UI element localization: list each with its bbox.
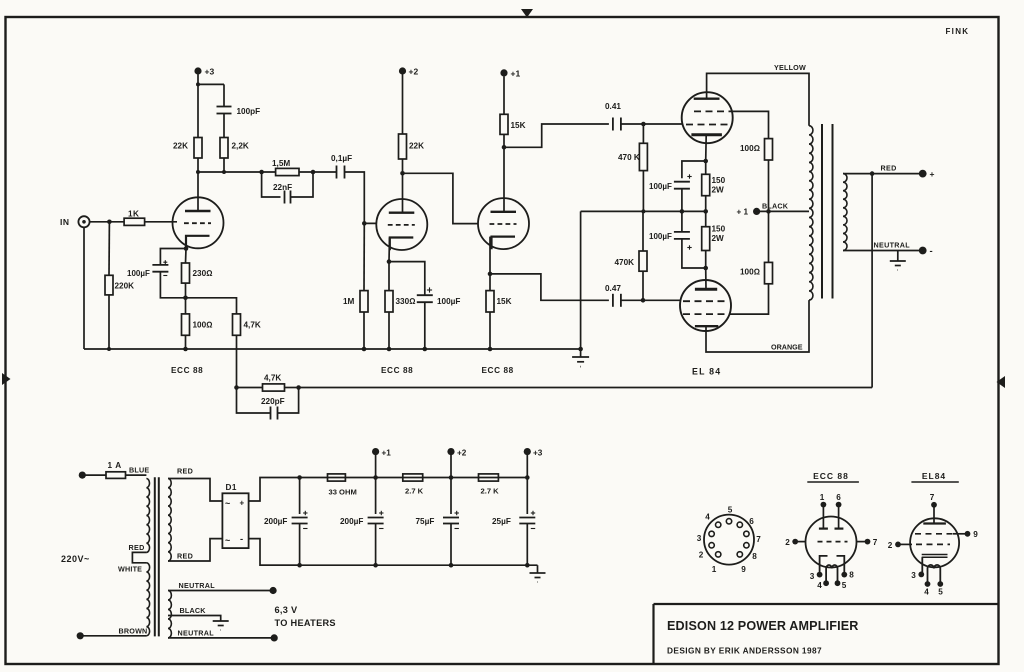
wire V1 plate to 22K [197,158,199,211]
svg-text:15K: 15K [511,121,526,130]
wire HT bottom to rectifier [168,539,222,561]
svg-text:100Ω: 100Ω [740,268,760,277]
node below +3 [196,82,200,86]
svg-text:1: 1 [712,565,717,574]
svg-text:ECC 88: ECC 88 [171,366,203,375]
svg-text:200µF: 200µF [264,517,287,526]
node V2 anode [400,171,405,176]
feedback line to output [299,387,873,389]
svg-text:2.7 K: 2.7 K [405,487,424,496]
wire V5 plate to transformer bottom [706,300,809,352]
svg-text:4,7K: 4,7K [244,321,261,330]
svg-text:0.41: 0.41 [605,102,621,111]
capacitor 100uF (upper cathode bypass) [682,161,706,178]
svg-text:EL84: EL84 [922,471,946,481]
svg-text:2W: 2W [712,234,725,243]
B+ rail [300,477,528,479]
svg-text:3: 3 [810,572,815,581]
resistor 100R (lower screen) [765,262,773,283]
svg-text:FINK: FINK [946,27,970,36]
wire fuse to primary [126,474,147,476]
node grid1 junction [107,220,112,225]
node V5 cathode junction [703,266,708,271]
capacitor 22nF (parallel to 1.5M) [262,172,281,197]
mains terminal lower [77,632,84,639]
node B feedback [296,385,301,390]
svg-text:ECC 88: ECC 88 [813,471,849,481]
svg-text:RED: RED [129,543,145,552]
svg-text:8: 8 [752,552,757,561]
resistor 470K (lower grid leak) [639,251,647,271]
svg-text:100Ω: 100Ω [740,144,760,153]
EL84 basing circle [910,518,959,567]
wire V3 cathode to coupling cap 0.47 [490,274,609,300]
mains primary winding upper [146,479,149,553]
svg-text:220pF: 220pF [261,397,285,406]
heater terminal bottom [271,634,278,641]
svg-text:470K: 470K [615,258,635,267]
RED tap jog [132,552,146,562]
wire rectifier - to ground rail [249,539,300,566]
svg-text:230Ω: 230Ω [193,269,213,278]
capacitor 0.47 (lower coupling) [612,294,614,307]
ECC88 heater [826,565,837,583]
svg-text:2: 2 [888,541,893,550]
heater winding [168,591,171,638]
ECC88 pin3 cathode [820,556,828,575]
resistor 220K (input load) [105,275,113,295]
svg-text:25µF: 25µF [492,517,511,526]
node V4 cathode [703,159,708,164]
node V3 cathode [488,272,493,277]
svg-text:100µF: 100µF [127,269,150,278]
resistor 100R (V1 cathode to gnd) [182,314,190,335]
svg-text:+ 1: + 1 [737,208,749,217]
svg-text:100µF: 100µF [649,182,672,191]
svg-text:4: 4 [924,588,929,597]
svg-text:22K: 22K [409,142,424,151]
wire secondary bottom NEUTRAL [843,250,923,252]
wire 15K to +1 [503,76,505,114]
node +1 center tap feed [753,208,760,215]
wire V5 screen to 100R [731,284,769,314]
node +2 filter [449,475,454,480]
svg-text:D1: D1 [226,483,237,492]
node filter 1 [297,475,302,480]
svg-text:2: 2 [699,551,704,560]
node +1 filter [373,475,378,480]
node V3 anode [502,145,507,150]
svg-text:1: 1 [820,493,825,502]
capacitor 0.1uF (coupling) [336,166,338,179]
svg-text:YELLOW: YELLOW [774,63,806,72]
HT secondary winding [168,479,171,562]
resistor 150R 2W (lower cathode) [702,227,710,251]
svg-text:8: 8 [849,571,854,580]
node +2 supply [399,67,406,74]
output transformer primary winding [809,126,813,300]
top registration mark [521,9,533,18]
svg-text:150: 150 [712,225,726,234]
wire V2 anode to V3 grid [403,173,479,223]
svg-text:BROWN: BROWN [119,627,148,636]
svg-text:WHITE: WHITE [118,565,142,574]
ECC88 pin2 grid [795,541,806,543]
svg-text:NEUTRAL: NEUTRAL [179,581,216,590]
node after 1.5M [311,170,316,175]
socket pin view B9A [704,515,754,565]
feedback wire from output [871,174,873,388]
heater top lead NEUTRAL [168,590,273,592]
svg-text:2: 2 [785,538,790,547]
svg-text:BLACK: BLACK [762,202,789,211]
svg-text:7: 7 [873,538,878,547]
svg-text:+1: +1 [511,69,521,79]
svg-text:220K: 220K [115,282,135,291]
wire 1K to V1 grid [145,221,177,223]
svg-text:BLACK: BLACK [180,606,207,615]
output transformer secondary winding [843,174,847,251]
svg-text:ECC 88: ECC 88 [381,366,413,375]
svg-text:+3: +3 [533,449,543,458]
heater terminal top [270,587,277,594]
resistor 2.7K second [479,474,499,481]
wire V4 plate to transformer top [707,73,809,125]
svg-text:RED: RED [177,552,193,561]
EL84 cathode pin3 [922,554,948,556]
resistor 33 OHM [328,474,346,481]
svg-text:NEUTRAL: NEUTRAL [874,241,911,250]
capacitor 25uF [526,478,528,515]
wire V2 plate up [402,173,404,212]
svg-text:0,1µF: 0,1µF [331,154,352,163]
EL84 grid2 dashes pin9 [915,533,953,535]
svg-text:9: 9 [741,565,746,574]
triode V3 ECC88c [478,198,529,249]
wire 0.1uF to V2 grid [345,172,377,223]
wire primary bottom to terminal [80,635,146,637]
node +1 supply top [500,69,507,76]
node upper EL84 grid [641,122,646,127]
mains primary winding lower [146,563,149,636]
heater mid tap BLACK to ground [168,616,221,622]
svg-text:5: 5 [728,506,733,515]
svg-text:1 A: 1 A [108,461,122,470]
svg-text:4,7K: 4,7K [264,374,281,383]
resistor 100R (upper screen) [765,139,773,160]
resistor 4.7K feedback [263,384,285,391]
svg-text:22K: 22K [173,142,188,151]
resistor 1.5M (coupling) [276,168,299,175]
EL84 pin7 anode [931,502,937,508]
wire V2 cathode down [388,238,391,262]
svg-text:1M: 1M [343,297,355,306]
capacitor 100uF (lower cathode bypass) [681,211,683,232]
resistor 330R (V2 cathode) [385,291,393,312]
svg-text:7: 7 [756,535,761,544]
wire rectifier + to filter [249,478,300,502]
capacitor 100uF (V2 cathode bypass) [389,262,425,295]
node +3 filter [525,475,530,480]
output transformer core [821,124,823,299]
title block frame [654,603,1000,605]
svg-text:ORANGE: ORANGE [771,343,803,352]
ECC88 pin1 anode [821,502,827,508]
svg-text:NEUTRAL: NEUTRAL [178,629,215,638]
mains transformer core [154,477,156,636]
svg-text:2W: 2W [712,186,725,195]
svg-text:1,5M: 1,5M [272,159,290,168]
pentode V4 EL84 upper [682,92,733,143]
mains terminal upper [79,472,86,479]
resistor 2.7K first [403,474,423,481]
resistor 2.2K [220,138,228,159]
input jack J1 [78,216,89,227]
svg-text:330Ω: 330Ω [396,297,416,306]
resistor 1K (grid stopper) [124,218,145,225]
svg-text:-: - [930,246,933,257]
EL84 grid1 dashes pin2 [916,543,950,545]
svg-text:6: 6 [749,517,754,526]
svg-text:33 OHM: 33 OHM [329,488,357,497]
node lower EL84 grid [641,298,646,303]
node V1 anode junction [196,170,200,174]
capacitor 200uF second [375,478,377,515]
svg-text:IN: IN [60,217,70,227]
ECC88 pin8 cathode [837,556,845,575]
wire cap to lower EL84 grid [621,299,680,301]
resistor 22K (V1 anode) [194,138,202,159]
ground bus [84,348,581,350]
svg-text:-: - [240,534,243,545]
output terminal + [919,170,927,178]
svg-text:EDISON 12 POWER AMPLIFIER: EDISON 12 POWER AMPLIFIER [667,619,859,633]
svg-text:+2: +2 [457,449,467,458]
svg-text:100pF: 100pF [237,107,261,116]
svg-text:+: + [930,169,935,179]
svg-text:BLUE: BLUE [129,466,149,475]
svg-text:15K: 15K [497,297,512,306]
EL84 heater [928,565,941,584]
svg-text:100µF: 100µF [649,232,672,241]
ground symbol main [580,349,582,357]
node V2 grid [362,221,367,226]
capacitor 200uF first [299,478,301,515]
wire 22K to +2 [402,75,404,135]
resistor 15K (V3 cathode) [486,291,494,312]
triode V2 ECC88b [376,199,427,250]
wire black center tap [757,210,809,212]
svg-text:RED: RED [881,164,897,173]
svg-text:3: 3 [911,571,916,580]
output terminal - [919,247,927,255]
svg-text:0.47: 0.47 [605,284,621,293]
ground on neutral [897,251,899,262]
svg-text:9: 9 [973,530,978,539]
svg-text:ECC 88: ECC 88 [482,366,514,375]
wire V3 plate up [503,147,505,212]
capacitor 100pF (anode bypass) [217,106,232,108]
wire V4 screen to 100R [733,111,769,138]
ECC88 basing circle [806,517,857,568]
wire secondary top RED [843,173,923,175]
resistor 470K (upper grid leak) [639,143,647,170]
feedback network node A [234,385,239,390]
left registration mark [2,373,11,385]
fuse 1A [106,472,126,479]
svg-text:TO HEATERS: TO HEATERS [275,618,336,628]
triode V1 ECC88a [173,197,224,248]
svg-text:3: 3 [697,534,702,543]
PSU ground symbol [537,565,539,573]
resistor 1M (V2 grid leak) [360,291,368,312]
svg-text:6,3 V: 6,3 V [275,605,299,615]
capacitor 100uF (V1 cathode bypass) [152,264,168,266]
ECC88 pin6 anode [836,502,842,508]
svg-text:150: 150 [712,176,726,185]
wire +3 branch to 100pF [198,83,224,85]
svg-text:4: 4 [817,581,822,590]
bridge rectifier D1 [222,493,248,548]
V1 cathode network [184,246,189,251]
svg-text:100µF: 100µF [437,297,460,306]
svg-text:75µF: 75µF [416,517,435,526]
wire bias rail to ground bus [580,211,582,349]
svg-text:2,2K: 2,2K [232,142,249,151]
svg-text:100Ω: 100Ω [193,321,213,330]
svg-text:4: 4 [705,513,710,522]
svg-text:EL 84: EL 84 [692,367,721,377]
ECC88 pin7 grid [856,541,868,543]
resistor 15K (V3 anode) [500,114,508,134]
node below 230R [183,296,188,301]
svg-text:RED: RED [177,467,193,476]
svg-text:7: 7 [930,493,935,502]
svg-text:220V~: 220V~ [61,554,90,564]
svg-text:+1: +1 [382,449,392,458]
wire V3 anode to coupling cap 0.41 [504,124,609,147]
node +3 supply [194,67,201,74]
svg-text:~: ~ [225,536,230,546]
svg-text:5: 5 [938,588,943,597]
wire jack down to ground bus [83,227,85,349]
svg-text:+: + [240,499,245,508]
svg-text:+3: +3 [205,67,215,77]
node V2 cathode [387,259,392,264]
wire jack to grid node [90,221,124,223]
wire HT top to rectifier [168,479,222,502]
svg-text:DESIGN BY ERIK ANDERSSON 1987: DESIGN BY ERIK ANDERSSON 1987 [667,646,822,656]
node feedback takeoff [870,171,875,176]
ECC88 grid dashes [818,541,848,543]
svg-text:~: ~ [225,499,230,509]
wire 100pF to 2.2K [223,114,225,138]
bias rail (grounded) [581,210,706,212]
wire 22K to +3 node [197,75,199,138]
capacitor 220pF (feedback) [237,388,271,414]
svg-text:2.7 K: 2.7 K [481,487,500,496]
svg-text:22nF: 22nF [273,183,292,192]
svg-text:1K: 1K [128,210,139,219]
resistor 4.7K (to feedback) [233,314,241,335]
resistor 22K (V2 anode) [399,134,407,159]
wire cap to upper EL84 grid [621,123,682,125]
heater bottom lead NEUTRAL [168,637,274,639]
svg-text:470 K: 470 K [618,153,640,162]
svg-text:5: 5 [842,581,847,590]
svg-text:+2: +2 [409,67,419,77]
pentode V5 EL84 lower [680,280,731,331]
svg-text:6: 6 [836,493,841,502]
right registration mark [997,376,1006,388]
wire anode node to 1.5M [198,171,276,173]
node B+ on black line [766,209,771,214]
resistor 230R (V1 cathode) [182,263,190,283]
svg-text:200µF: 200µF [340,517,363,526]
resistor 150R 2W (upper cathode) [702,174,710,195]
PSU ground rail [260,564,538,566]
capacitor 0.41 (upper coupling) [612,118,614,131]
capacitor 75uF [450,478,452,515]
